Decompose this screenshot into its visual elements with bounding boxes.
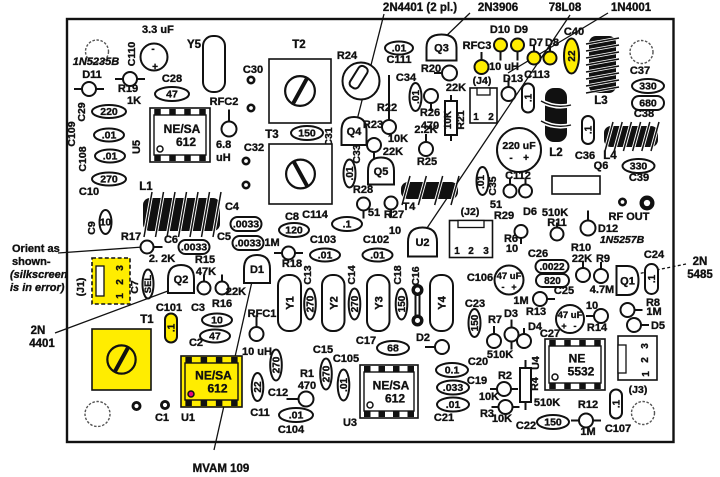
svg-text:is in error): is in error) (10, 282, 65, 294)
svg-text:R29: R29 (494, 210, 514, 222)
svg-text:.1: .1 (523, 93, 534, 102)
svg-text:R26: R26 (420, 107, 440, 119)
svg-text:C6: C6 (164, 234, 178, 246)
svg-text:C109: C109 (66, 121, 78, 146)
svg-text:2: 2 (468, 246, 474, 257)
svg-text:.01: .01 (392, 43, 407, 55)
svg-text:R2: R2 (498, 370, 512, 382)
svg-text:C102: C102 (363, 234, 389, 246)
svg-text:Q1: Q1 (620, 275, 635, 287)
svg-text:Y3: Y3 (373, 296, 385, 309)
svg-text:3: 3 (115, 265, 126, 271)
svg-text:1: 1 (454, 246, 460, 257)
svg-text:D1: D1 (250, 264, 264, 276)
svg-text:C37: C37 (630, 65, 650, 77)
svg-text:R12: R12 (578, 399, 598, 411)
svg-text:612: 612 (207, 382, 227, 396)
svg-text:U5: U5 (131, 140, 143, 154)
svg-text:RFC3: RFC3 (463, 40, 492, 52)
svg-text:0.1: 0.1 (445, 365, 460, 377)
svg-text:1: 1 (641, 371, 652, 377)
svg-text:.1: .1 (343, 219, 352, 231)
svg-text:.0033: .0033 (181, 242, 207, 254)
svg-text:.01: .01 (345, 166, 356, 180)
svg-text:C39: C39 (629, 172, 649, 184)
svg-text:RF OUT: RF OUT (609, 211, 650, 223)
svg-text:C8: C8 (285, 211, 299, 223)
svg-text:C107: C107 (605, 423, 631, 435)
svg-text:.01: .01 (339, 378, 350, 392)
svg-text:R24: R24 (337, 50, 358, 62)
svg-text:10: 10 (211, 315, 223, 327)
svg-text:270: 270 (271, 356, 282, 373)
svg-text:.0022: .0022 (539, 262, 564, 273)
svg-text:10 uH: 10 uH (242, 346, 272, 358)
svg-text:150: 150 (298, 128, 316, 140)
svg-text:C24: C24 (644, 249, 665, 261)
svg-text:510K: 510K (487, 349, 513, 361)
svg-text:47: 47 (166, 89, 178, 101)
svg-text:(J1): (J1) (75, 278, 87, 297)
svg-text:6.8: 6.8 (216, 139, 231, 151)
svg-text:R17: R17 (121, 231, 141, 243)
svg-text:-: - (502, 282, 505, 292)
svg-text:.1: .1 (611, 399, 622, 408)
svg-text:C22: C22 (516, 420, 536, 432)
svg-text:+: + (561, 321, 566, 331)
svg-text:220: 220 (100, 106, 118, 118)
svg-text:R4: R4 (529, 377, 541, 391)
svg-text:22K: 22K (226, 286, 246, 298)
svg-text:2N: 2N (31, 325, 46, 337)
svg-text:Q3: Q3 (434, 42, 449, 54)
svg-text:78L08: 78L08 (549, 2, 582, 14)
svg-text:R13: R13 (526, 306, 546, 318)
svg-text:U3: U3 (343, 417, 357, 429)
svg-text:1K: 1K (127, 95, 141, 107)
svg-text:R25: R25 (417, 156, 437, 168)
svg-text:R14: R14 (587, 322, 608, 334)
svg-text:C101: C101 (156, 302, 182, 314)
svg-text:.01: .01 (411, 90, 422, 104)
svg-text:C106: C106 (467, 272, 493, 284)
svg-text:1M: 1M (264, 237, 279, 249)
svg-text:NE/SA: NE/SA (164, 122, 201, 136)
svg-text:C18: C18 (392, 265, 404, 284)
svg-text:C4: C4 (225, 201, 240, 213)
svg-text:2N3906: 2N3906 (478, 2, 518, 14)
svg-text:C16: C16 (410, 266, 422, 285)
svg-text:330: 330 (639, 81, 657, 93)
svg-text:C36: C36 (575, 150, 595, 162)
svg-text:C35: C35 (487, 176, 499, 195)
svg-text:D13: D13 (503, 73, 523, 85)
svg-text:(J3): (J3) (629, 384, 648, 396)
svg-text:22K: 22K (446, 82, 466, 94)
svg-text:R18: R18 (282, 258, 302, 270)
svg-text:Y4: Y4 (437, 295, 449, 309)
svg-text:-: - (574, 321, 577, 331)
svg-text:D2: D2 (416, 332, 430, 344)
svg-text:1N5257B: 1N5257B (600, 234, 645, 246)
svg-text:1M: 1M (646, 306, 661, 318)
svg-text:Q2: Q2 (174, 274, 189, 286)
svg-text:C19: C19 (467, 375, 487, 387)
svg-text:270: 270 (305, 295, 316, 312)
svg-text:Q5: Q5 (374, 166, 389, 178)
svg-text:22K: 22K (383, 146, 403, 158)
svg-text:10K: 10K (492, 413, 512, 425)
svg-text:5485: 5485 (687, 269, 713, 281)
svg-text:R1: R1 (300, 368, 314, 380)
svg-text:1N4001: 1N4001 (611, 2, 652, 14)
svg-text:C25: C25 (554, 285, 574, 297)
svg-text:RFC2: RFC2 (210, 96, 239, 108)
svg-text:Q4: Q4 (347, 126, 363, 138)
svg-text:47 uF: 47 uF (497, 271, 522, 282)
svg-text:51: 51 (368, 207, 380, 219)
svg-text:C111: C111 (386, 54, 411, 66)
svg-text:510K: 510K (534, 397, 560, 409)
svg-text:SEL: SEL (143, 275, 154, 294)
svg-text:.1: .1 (583, 125, 594, 134)
svg-text:R21: R21 (455, 110, 467, 129)
svg-text:R16: R16 (212, 298, 232, 310)
svg-text:C29: C29 (76, 102, 88, 121)
svg-text:C110: C110 (126, 42, 138, 67)
svg-text:270: 270 (321, 365, 332, 382)
svg-text:R7: R7 (488, 314, 502, 326)
svg-text:(J2): (J2) (461, 206, 480, 218)
svg-text:C40: C40 (564, 26, 584, 38)
svg-text:NE: NE (569, 352, 586, 366)
svg-text:47: 47 (209, 331, 221, 343)
svg-text:(silkscreen: (silkscreen (10, 269, 68, 281)
svg-text:+: + (511, 282, 516, 292)
svg-text:D5: D5 (651, 320, 665, 332)
svg-text:1: 1 (473, 112, 479, 123)
svg-text:612: 612 (176, 135, 196, 149)
svg-text:C28: C28 (162, 73, 182, 85)
svg-text:D4: D4 (528, 321, 543, 333)
svg-text:Orient as: Orient as (12, 243, 60, 255)
svg-text:MVAM 109: MVAM 109 (193, 463, 250, 475)
svg-text:C21: C21 (434, 412, 454, 424)
svg-text:C105: C105 (333, 353, 359, 365)
svg-text:.033: .033 (443, 382, 464, 394)
svg-text:R28: R28 (353, 184, 373, 196)
svg-text:Q6: Q6 (594, 160, 609, 172)
svg-text:10K: 10K (443, 110, 454, 129)
svg-text:220 uF: 220 uF (502, 140, 536, 152)
svg-text:uH: uH (216, 152, 231, 164)
svg-text:D7: D7 (529, 37, 543, 49)
svg-text:C26: C26 (528, 248, 548, 260)
svg-text:.01: .01 (318, 250, 333, 262)
svg-text:1: 1 (115, 293, 126, 299)
svg-text:C2: C2 (189, 337, 203, 349)
svg-text:10: 10 (100, 217, 112, 228)
svg-text:47 uF: 47 uF (558, 310, 583, 321)
svg-text:(J4): (J4) (473, 75, 492, 87)
svg-text:.01: .01 (289, 410, 304, 422)
svg-text:R22: R22 (377, 102, 397, 114)
svg-text:Y1: Y1 (285, 296, 297, 309)
svg-text:RFC1: RFC1 (248, 308, 277, 320)
svg-text:D8: D8 (545, 37, 559, 49)
svg-text:L3: L3 (594, 95, 607, 107)
svg-text:shown-: shown- (12, 256, 51, 268)
svg-text:T1: T1 (140, 314, 154, 326)
svg-text:D3: D3 (504, 308, 518, 320)
svg-text:R9: R9 (596, 253, 610, 265)
svg-text:D9: D9 (514, 24, 528, 36)
svg-text:120: 120 (285, 225, 303, 237)
svg-text:Y5: Y5 (187, 39, 202, 51)
svg-text:C7: C7 (129, 280, 141, 294)
svg-text:2N: 2N (693, 256, 708, 268)
svg-text:3: 3 (483, 246, 489, 257)
svg-text:C13: C13 (302, 265, 314, 284)
svg-text:C114: C114 (302, 209, 329, 221)
svg-text:5532: 5532 (568, 365, 595, 379)
svg-text:270: 270 (100, 174, 118, 186)
svg-text:47K: 47K (196, 266, 216, 278)
svg-text:2. 2K: 2. 2K (149, 253, 175, 265)
svg-text:D11: D11 (82, 69, 102, 81)
svg-text:U2: U2 (415, 237, 429, 249)
svg-text:T3: T3 (265, 129, 278, 141)
svg-text:1N5235B: 1N5235B (73, 56, 120, 68)
svg-text:10K: 10K (479, 391, 499, 403)
svg-text:10: 10 (389, 225, 401, 237)
svg-text:L2: L2 (549, 147, 562, 159)
svg-text:2: 2 (115, 279, 126, 285)
svg-text:-: - (509, 153, 512, 164)
svg-text:L1: L1 (139, 181, 153, 193)
svg-text:22: 22 (567, 50, 578, 62)
svg-text:10K: 10K (388, 133, 408, 145)
svg-text:C3: C3 (191, 302, 205, 314)
svg-text:270: 270 (350, 295, 361, 312)
svg-text:C108: C108 (77, 146, 89, 171)
svg-text:C15: C15 (313, 344, 333, 356)
svg-text:C113: C113 (524, 69, 550, 81)
svg-text:470: 470 (298, 380, 316, 392)
svg-text:4.7M: 4.7M (590, 284, 614, 296)
svg-text:3: 3 (640, 343, 651, 349)
svg-text:U1: U1 (181, 412, 195, 424)
svg-text:C12: C12 (268, 387, 288, 399)
svg-text:+: + (152, 62, 158, 73)
svg-text:Y2: Y2 (328, 296, 340, 309)
svg-text:C17: C17 (356, 335, 376, 347)
svg-text:330: 330 (630, 161, 648, 173)
svg-text:C32: C32 (244, 142, 264, 154)
svg-text:T4: T4 (403, 201, 417, 213)
svg-text:C34: C34 (396, 72, 417, 84)
svg-text:470: 470 (421, 120, 439, 132)
svg-text:C38: C38 (634, 108, 654, 120)
svg-text:C20: C20 (468, 356, 488, 368)
svg-text:.01: .01 (370, 250, 385, 262)
svg-text:+: + (523, 153, 529, 164)
svg-text:.1: .1 (647, 274, 658, 283)
svg-text:68: 68 (387, 343, 399, 355)
svg-text:2: 2 (640, 357, 651, 363)
svg-text:22: 22 (253, 381, 264, 393)
svg-text:-: - (151, 44, 154, 55)
svg-text:.01: .01 (103, 151, 118, 163)
svg-text:3.3 uF: 3.3 uF (142, 24, 174, 36)
svg-text:10 uH: 10 uH (489, 61, 519, 73)
svg-text:4401: 4401 (29, 338, 55, 350)
svg-text:1M: 1M (580, 426, 595, 438)
svg-text:150: 150 (470, 314, 481, 331)
svg-text:C1: C1 (155, 412, 169, 424)
svg-text:D6: D6 (523, 206, 537, 218)
svg-text:C104: C104 (278, 424, 305, 436)
svg-text:T2: T2 (292, 39, 305, 51)
svg-text:.1: .1 (166, 323, 177, 332)
svg-text:.01: .01 (446, 399, 461, 411)
svg-text:C103: C103 (310, 234, 336, 246)
svg-text:10: 10 (506, 243, 518, 255)
svg-text:R15: R15 (195, 254, 215, 266)
svg-text:C30: C30 (243, 64, 263, 76)
svg-text:NE/SA: NE/SA (373, 379, 410, 393)
svg-text:NE/SA: NE/SA (195, 369, 232, 383)
svg-text:.0033: .0033 (233, 219, 259, 231)
svg-text:C5: C5 (217, 231, 231, 243)
svg-text:R23: R23 (363, 119, 383, 131)
svg-text:D10: D10 (490, 24, 510, 36)
svg-text:2N4401 (2 pl.): 2N4401 (2 pl.) (383, 2, 457, 14)
svg-text:C10: C10 (79, 186, 99, 198)
svg-text:612: 612 (385, 392, 405, 406)
svg-text:C11: C11 (250, 407, 270, 419)
svg-text:150: 150 (397, 295, 408, 312)
svg-text:150: 150 (544, 417, 562, 429)
svg-text:C14: C14 (346, 265, 358, 284)
svg-text:.0033: .0033 (235, 238, 261, 250)
svg-text:C9: C9 (86, 221, 98, 235)
svg-text:.01: .01 (102, 130, 117, 142)
svg-text:R27: R27 (384, 209, 404, 221)
svg-text:2: 2 (488, 112, 494, 123)
